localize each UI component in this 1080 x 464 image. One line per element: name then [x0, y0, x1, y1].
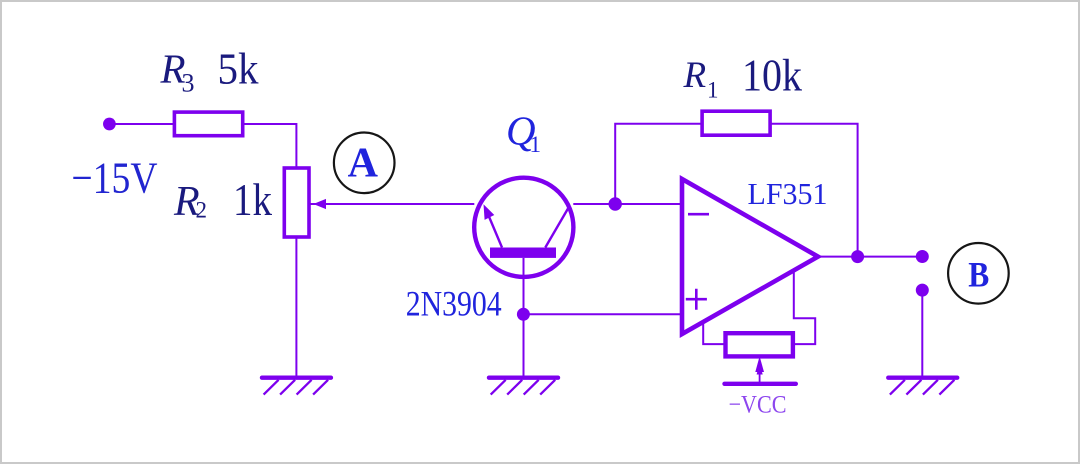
transistor Q1 base bar: [490, 248, 556, 258]
svg-text:2N3904: 2N3904: [406, 284, 502, 324]
svg-text:5k: 5k: [218, 45, 259, 94]
node at transistor bottom: [517, 308, 530, 321]
transistor Q1 emitter line with arrow: [486, 210, 502, 248]
offset wiper arrow to -VCC: [759, 370, 761, 384]
node B ground terminal dot: [916, 284, 929, 297]
wire op-amp bottom edge to offset resistor right: [793, 271, 815, 345]
svg-text:−15V: −15V: [72, 154, 158, 203]
wire R1 right to output: [770, 124, 858, 257]
wire op-amp output: [818, 256, 922, 258]
svg-text:B: B: [968, 254, 989, 294]
ground below R2: [262, 378, 331, 395]
op-amp inverting input pin minus: [688, 213, 709, 216]
wire R3 to R2 top: [243, 124, 297, 168]
node B output terminal dot: [916, 250, 929, 263]
ground below node B: [888, 378, 957, 395]
svg-text:2: 2: [196, 198, 208, 223]
node -15V terminal dot: [103, 118, 116, 131]
svg-text:LF351: LF351: [748, 176, 828, 211]
wire node up to R1 left: [615, 124, 702, 204]
svg-text:A: A: [348, 141, 379, 187]
wiper arrowhead into R2: [313, 199, 326, 209]
svg-text:R: R: [683, 55, 707, 96]
resistor R3: [174, 112, 242, 136]
wire wiper arrow to transistor (node A wire): [310, 203, 475, 205]
node junction output and feedback: [851, 250, 864, 263]
offset null resistor: [726, 333, 793, 356]
wire node to op-amp + input: [524, 313, 683, 315]
wire node to ground: [523, 314, 525, 375]
op-amp noninverting input pin plus: [686, 289, 707, 310]
op-amp U1 triangle: [682, 179, 818, 334]
node A circle: [334, 133, 395, 194]
wire op-amp bottom edge to offset resistor left: [703, 323, 725, 345]
wire R2 bottom to ground: [295, 237, 297, 376]
node B circle: [948, 243, 1009, 304]
node junction at inverting input: [609, 197, 622, 210]
svg-text:1: 1: [707, 78, 719, 103]
wire B ground dot to ground: [921, 290, 923, 376]
transistor Q1 body circle: [474, 178, 573, 277]
resistor R2 potentiometer body: [284, 168, 309, 237]
svg-text:1: 1: [530, 132, 542, 157]
ground below transistor: [489, 378, 558, 395]
svg-text:−VCC: −VCC: [729, 392, 787, 419]
wire -15V dot to R3: [109, 123, 174, 125]
resistor R1: [702, 111, 770, 135]
wire transistor collector to inverting input: [573, 203, 682, 205]
svg-text:10k: 10k: [742, 50, 802, 100]
wire transistor base to emitter node: [523, 258, 525, 314]
svg-text:3: 3: [182, 69, 195, 98]
transistor Q1 collector line: [545, 208, 568, 248]
-VCC power rail bar: [725, 382, 796, 386]
svg-text:1k: 1k: [233, 175, 272, 225]
